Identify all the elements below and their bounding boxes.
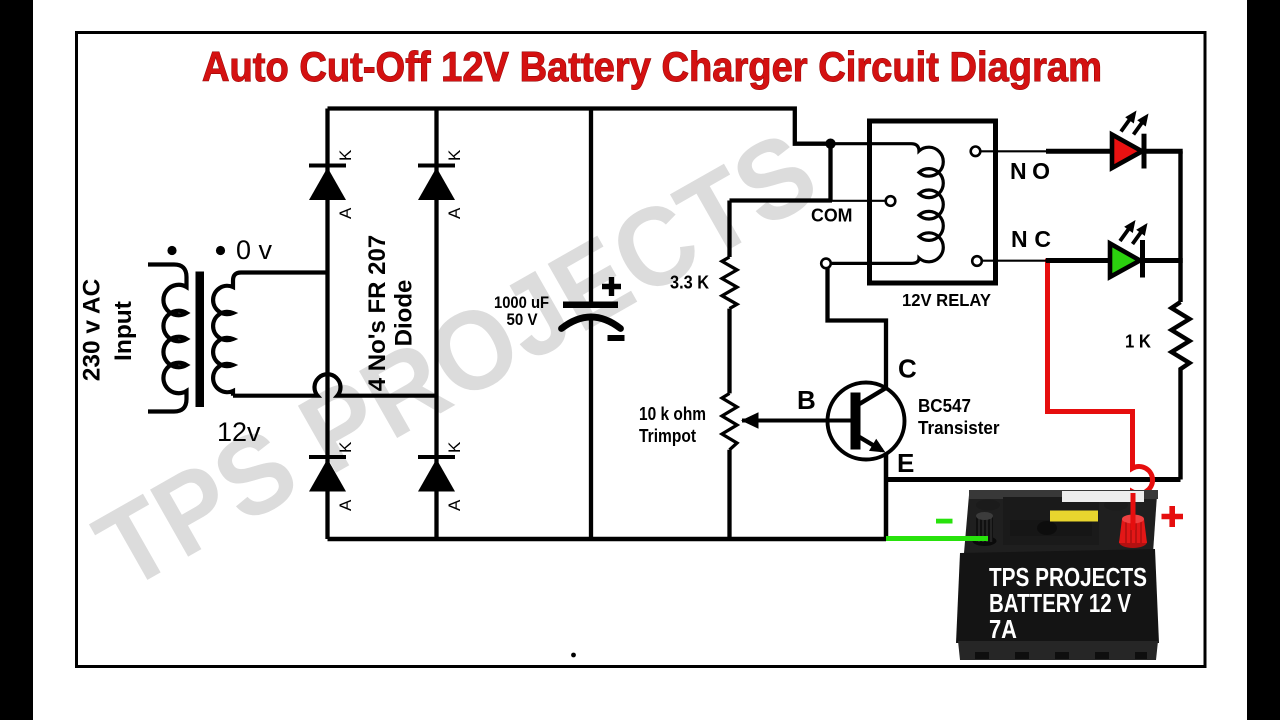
LED D6 green (1110, 220, 1183, 278)
capacitor plus sign (602, 277, 621, 296)
wire top +rail (328, 109, 827, 144)
label plus red (1162, 506, 1184, 527)
svg-text:Diode: Diode (391, 280, 418, 347)
relay coil bottom terminal (821, 259, 831, 269)
svg-text:E: E (897, 448, 914, 478)
resistor R1 3.3K zigzag (722, 257, 737, 309)
transformer secondary winding (213, 273, 327, 396)
node junction dot (rail/coil/COM) (825, 139, 835, 149)
wire relay coil bottom to transistor collector (828, 267, 887, 390)
svg-text:0 v: 0 v (236, 235, 273, 265)
resistor R2 1K zigzag (1172, 302, 1190, 372)
transformer primary winding (148, 265, 187, 412)
svg-text:7A: 7A (989, 614, 1017, 644)
svg-text:N O: N O (1010, 158, 1050, 184)
left pillarbox bar (0, 0, 33, 720)
capacitor minus sign (608, 335, 625, 341)
LED D5 red (1112, 111, 1183, 169)
svg-text:Auto Cut-Off 12V Battery Charg: Auto Cut-Off 12V Battery Charger Circuit… (202, 43, 1102, 90)
relay NC contact terminal (972, 256, 982, 266)
svg-text:BC547: BC547 (918, 396, 971, 416)
svg-text:3.3 K: 3.3 K (670, 273, 709, 293)
transformer T1 (148, 265, 437, 412)
svg-text:K: K (445, 441, 464, 453)
svg-text:K: K (336, 149, 355, 161)
svg-text:A: A (336, 499, 355, 511)
diode D3 (bridge bottom-left) (309, 441, 355, 511)
svg-text:A: A (445, 499, 464, 511)
transistor Q1 BC547 (742, 383, 905, 460)
transformer primary polarity dot (167, 246, 176, 255)
wire 12v secondary lead with hop over left branch (233, 374, 437, 395)
svg-text:K: K (445, 149, 464, 161)
right pillarbox bar (1247, 0, 1280, 720)
battery BT1 12V photo (956, 490, 1159, 660)
trimpot RV1 zigzag (722, 393, 737, 449)
transformer secondary polarity dot (216, 246, 225, 255)
wire emitter to 1K bottom (886, 477, 1181, 482)
svg-text:Trimpot: Trimpot (639, 426, 696, 446)
svg-text:C: C (898, 354, 917, 384)
capacitor C1 1000uF (562, 302, 621, 329)
wire 1K branch vertical (1178, 151, 1182, 479)
relay K1 box (870, 121, 996, 283)
svg-text:B: B (797, 385, 816, 415)
wire 3.3K branch top corner to relay (730, 198, 833, 202)
wire right bridge branch (434, 109, 438, 540)
diode D2 (bridge top-right) (418, 149, 464, 219)
svg-text:230 v AC: 230 v AC (79, 278, 106, 381)
svg-text:1 K: 1 K (1125, 332, 1151, 352)
svg-text:50 V: 50 V (507, 310, 539, 329)
wire emitter down to bottom rail (884, 453, 889, 539)
wire bottom -rail (328, 537, 887, 542)
diode D1 (bridge top-left) (309, 149, 355, 219)
battery negative terminal post (973, 536, 997, 546)
wire NO contact to red LED (981, 150, 1047, 152)
transformer core (196, 272, 205, 408)
svg-text:4 No's FR 207: 4 No's FR 207 (364, 235, 391, 391)
svg-text:12V RELAY: 12V RELAY (902, 290, 991, 310)
wire red from NC to battery plus (with hop) (1048, 259, 1153, 524)
wire relay dot down to COM wire (828, 144, 832, 201)
svg-text:COM: COM (811, 206, 853, 226)
relay coil (832, 144, 943, 264)
trimpot wiper arrow (757, 419, 855, 423)
svg-text:10 k ohm: 10 k ohm (639, 404, 706, 424)
wire capacitor branch top (589, 109, 593, 303)
wire 3.3K branch vertical (727, 201, 731, 540)
wire capacitor branch bottom (589, 319, 593, 539)
svg-text:Input: Input (110, 301, 137, 361)
relay NO contact terminal (971, 147, 981, 157)
relay COM contact terminal (886, 196, 896, 206)
svg-text:Transister: Transister (918, 418, 1000, 438)
svg-text:K: K (336, 441, 355, 453)
wire left bridge branch (325, 109, 329, 540)
svg-text:A: A (445, 207, 464, 219)
svg-text:N C: N C (1011, 226, 1051, 252)
label minus green (936, 519, 953, 524)
diode D4 (bridge bottom-right) (418, 441, 464, 511)
battery positive terminal post (1119, 536, 1147, 548)
wire thin to COM contact (832, 200, 885, 202)
stray dot (571, 653, 576, 658)
red wire tip into battery positive (1131, 493, 1136, 530)
wire green from bottom rail to battery minus (886, 536, 988, 541)
wire NC contact to green LED (982, 260, 1047, 262)
border frame (77, 33, 1206, 667)
svg-text:12v: 12v (217, 417, 261, 447)
svg-text:A: A (336, 207, 355, 219)
